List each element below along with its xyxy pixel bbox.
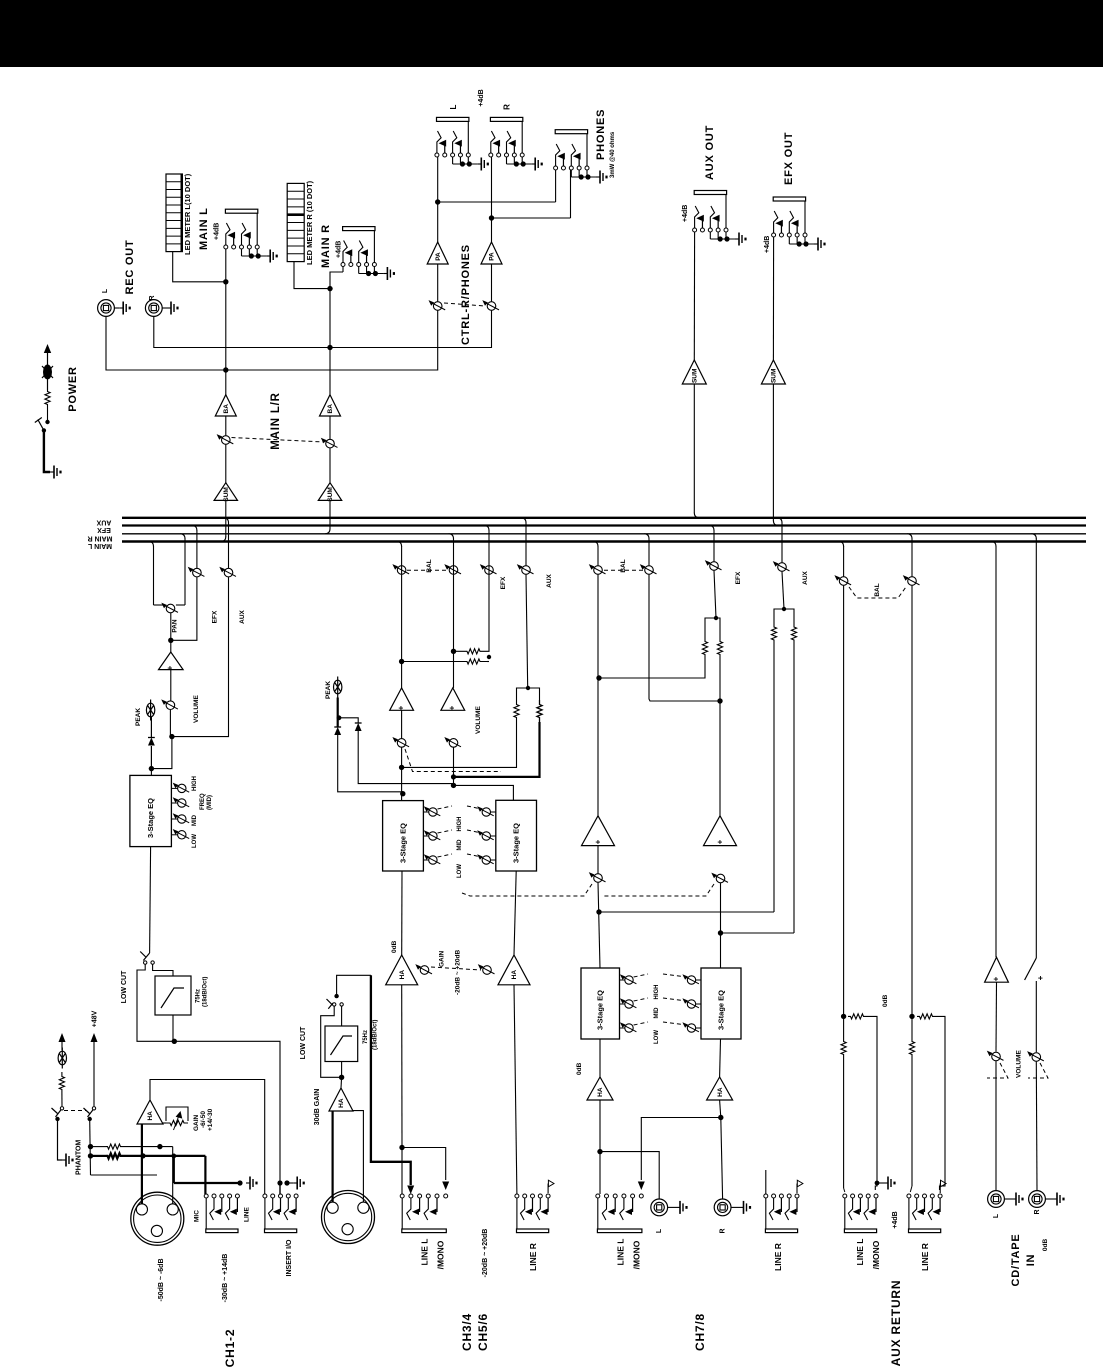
wire volume L to EQ ch78 [598, 883, 600, 968]
svg-text:BAL: BAL [426, 559, 433, 572]
wire BAL R down auxret [911, 586, 913, 1040]
wire aux sum to AUX pot ch34 [526, 575, 528, 688]
svg-text:VOLUME: VOLUME [1016, 1050, 1023, 1078]
amp SUM EFX OUT [761, 360, 785, 384]
svg-text:+: + [1036, 975, 1045, 980]
svg-text:-20dB ~ +20dB: -20dB ~ +20dB [455, 950, 462, 995]
svg-text:+4dB: +4dB [682, 205, 689, 222]
svg-text:BAL: BAL [620, 559, 627, 572]
POWER resistor R1 [45, 390, 50, 406]
wire volume L to RCA cdtape [995, 1061, 997, 1191]
amp + L CH3/4 [390, 688, 414, 710]
low cut bypass switch CH1-2 [143, 953, 149, 961]
wire EFX sum to pot ch78 [714, 571, 716, 618]
svg-text:30dB GAIN: 30dB GAIN [314, 1089, 321, 1126]
svg-text:GAIN: GAIN [439, 950, 446, 967]
wire MAIN L tap to CTRL pot L [226, 311, 438, 370]
pot AUX CH3/4 [522, 566, 531, 575]
svg-text:/MONO: /MONO [436, 1240, 446, 1269]
wire meter R to MAIN R line [294, 262, 330, 289]
svg-text:L: L [102, 288, 109, 293]
aux sum resistor R ch34 [537, 700, 542, 722]
svg-text:LINE R: LINE R [528, 1243, 538, 1271]
amp SUM MAIN L [214, 483, 237, 501]
wire volume to EQ CH1-2 [169, 710, 171, 737]
wire volume R to EQ ch78 [720, 883, 722, 968]
RCA jack R CH7/8 [714, 1199, 731, 1216]
wire LINE jack feed CH1 [204, 1156, 206, 1194]
pot BAL R CH3/4 [449, 566, 458, 575]
gang dashed VOLUME CH7/8 [462, 884, 592, 896]
phantom LED chain arrow [61, 1040, 63, 1050]
gang dashed BAL CH7/8 [604, 569, 644, 571]
EFX sum resistors CH7/8 [599, 656, 705, 678]
svg-text:HA: HA [717, 1087, 724, 1097]
gang dashed CTRL-R [444, 303, 485, 306]
peak diode R ch34 [339, 718, 358, 723]
amp HA L CH7/8 [587, 1077, 613, 1100]
normalling wire L to R ch34 [402, 1148, 446, 1181]
svg-text:+4dB: +4dB [478, 89, 485, 106]
svg-text:BA: BA [223, 404, 230, 414]
bus EFX [122, 524, 1086, 526]
wire volume R to RCA cdtape [1035, 1062, 1038, 1191]
diode peak CH1-2 [150, 746, 152, 769]
gang dashed VOLUME cdtape [987, 1063, 1008, 1078]
pot EQ MID CH1-2 [171, 818, 177, 820]
pot AUX CH1-2 [224, 568, 233, 577]
wire EFX OUT jack to SUM [772, 237, 774, 360]
wire MAIN R tap to CTRL pot R [330, 311, 492, 348]
pot BAL L CH3/4 [397, 566, 406, 575]
svg-text:MAIN L: MAIN L [198, 207, 210, 250]
pot gain L CH3/4 [420, 966, 429, 975]
wire CH1-2 pan L to bus MAIN L [153, 546, 155, 605]
wire XLR pin2 to HA CH1 [141, 1124, 143, 1204]
wire to RCA L ch78 [600, 1152, 659, 1199]
jack LINE R CH7/8 [764, 1194, 768, 1198]
POWER ground [50, 471, 54, 473]
svg-text:PEAK: PEAK [325, 681, 332, 699]
wire HA R to RCA R ch78 [720, 1100, 721, 1118]
svg-text:LINE: LINE [244, 1207, 251, 1222]
wire EFX pot to bus EFX CH1-2 [196, 530, 198, 568]
pot GAIN CH1-2 [162, 1122, 166, 1124]
svg-text:LINE R: LINE R [920, 1243, 930, 1271]
pot VOLUME R CH3/4 [449, 739, 458, 748]
wire CD L amp to volume [995, 982, 998, 1051]
wire SUM EFX to bus EFX [772, 384, 774, 521]
svg-text:R: R [720, 1228, 727, 1233]
svg-text:L: L [449, 104, 458, 109]
wire BAL R down to EFX tap ch34 [453, 575, 455, 688]
svg-text:/MONO: /MONO [871, 1240, 881, 1269]
XLR connector MIC CH1 [131, 1192, 184, 1245]
jack LINE L/MONO AUX RETURN [843, 1194, 847, 1198]
pot BAL L CH7/8 [594, 566, 603, 575]
svg-text:SUM: SUM [327, 487, 334, 501]
svg-text:LOW CUT: LOW CUT [121, 970, 128, 1003]
svg-text:-6/-50: -6/-50 [200, 1111, 207, 1128]
svg-text:SUM: SUM [771, 369, 778, 383]
EQ box R CH7/8 3-Stage EQ [701, 968, 741, 1039]
svg-text:PHONES: PHONES [595, 109, 607, 160]
wire EFX pot to bus ch78 [713, 530, 715, 561]
gang dashed gain CH3/4 [431, 967, 481, 970]
svg-text:HIGH: HIGH [192, 776, 198, 791]
jack CTRL ROOM OUT R [489, 153, 493, 157]
wire REC OUT L to MAIN L [106, 316, 226, 370]
svg-text:INSERT I/O: INSERT I/O [286, 1239, 293, 1277]
svg-text:BA: BA [327, 404, 334, 414]
svg-text:+: + [594, 839, 603, 844]
svg-text:+: + [716, 839, 725, 844]
svg-text:FREQ: FREQ [200, 793, 206, 810]
resistor inline L auxret [841, 1040, 846, 1056]
wire CD/TAPE R to bus MAIN R [1035, 538, 1037, 958]
svg-text:HA: HA [147, 1111, 154, 1121]
wire EFX tap CH1-2 [171, 577, 197, 640]
AUX sum resistors CH7/8 [771, 622, 776, 645]
wire SUM AUX to bus AUX [693, 384, 695, 513]
wire HA L to jacks ch78 [599, 1100, 601, 1152]
LED meter R (10 dot) [287, 183, 304, 261]
pot AUX CH7/8 [778, 563, 787, 572]
svg-text:AUX: AUX [802, 570, 809, 584]
wire BAL R down jog ch78 [649, 575, 720, 701]
pot MAIN R fader [326, 439, 335, 448]
peak diode L ch34 [337, 718, 339, 727]
amp BA MAIN L [215, 395, 236, 416]
svg-text:MAIN R: MAIN R [88, 535, 113, 542]
wire BAL R to bus auxret [911, 538, 913, 576]
pot VOLUME L CH7/8 [594, 874, 603, 883]
pot MAIN L fader [222, 436, 231, 445]
phantom feed wire [89, 1119, 92, 1175]
RCA jack CD/TAPE L [988, 1191, 1005, 1208]
wire CH1-2 pan R to bus MAIN R [184, 538, 186, 605]
aux tap L ch78 [599, 911, 774, 913]
amp SUM AUX OUT [682, 360, 706, 384]
jack MAIN L out [224, 245, 228, 249]
wire BAL L down auxret [843, 586, 845, 1040]
low cut filter box CH3/4 mic [325, 1026, 358, 1062]
EQ box R CH3/4 3-Stage EQ [496, 800, 537, 871]
wire HA R to jack ch34 [514, 985, 517, 1194]
svg-text:+: + [166, 665, 175, 670]
POWER ground wire [44, 430, 50, 472]
wire BAL L down ch78 [597, 575, 599, 816]
wire EQ R to HA ch78 [719, 1039, 722, 1077]
phantom LED [58, 1051, 66, 1065]
svg-text:SUM: SUM [692, 369, 699, 383]
wire BA to fader MAIN R [329, 416, 331, 439]
wire volume L to EQ ch34 [401, 748, 403, 801]
wire amp to volume L ch78 [597, 846, 599, 874]
wire volume R down ch34 [453, 748, 455, 786]
svg-text:EFX: EFX [212, 610, 219, 623]
wire BAL R to bus MAIN R ch34 [453, 538, 455, 574]
ground aux return L jack [875, 1182, 884, 1184]
jack EFX OUT [772, 233, 776, 237]
svg-text:LED METER L(10 DOT): LED METER L(10 DOT) [183, 173, 192, 255]
wire PA R to ctrl jack R and phones [491, 157, 493, 242]
wire AUX OUT jack to SUM [693, 232, 695, 360]
pot EQ MID pair CH7/8 [620, 1003, 625, 1005]
LED meter L (10 dot) [166, 174, 182, 252]
amp PA L [427, 242, 448, 264]
svg-text:3-Stage EQ: 3-Stage EQ [146, 798, 155, 838]
pot VOLUME CD/TAPE R [1032, 1053, 1041, 1062]
jack PHONES [554, 166, 558, 170]
bus AUX [122, 517, 1086, 519]
jack MAIN R out [341, 263, 345, 267]
svg-text:MIC: MIC [194, 1210, 201, 1222]
pot EQ HIGH CH1-2 [171, 787, 177, 789]
pot VOLUME CD/TAPE L [992, 1052, 1001, 1061]
svg-text:HA: HA [597, 1087, 604, 1097]
resistor branch R auxret [917, 1014, 935, 1019]
switch CD/TAPE R [1025, 958, 1037, 980]
pot BAL R CH7/8 [645, 566, 654, 575]
wire MAIN L jack to BA [225, 249, 227, 395]
svg-text:EFX: EFX [500, 576, 507, 589]
phantom switch pole B [92, 1107, 95, 1110]
jack INSERT I/O CH1-2 [263, 1194, 267, 1198]
svg-text:CH7/8: CH7/8 [693, 1313, 707, 1351]
pot EQ FREQ(MID) CH1-2 [171, 802, 177, 804]
svg-text:VOLUME: VOLUME [475, 706, 482, 734]
pot EQ HIGH pair CH3/4 [423, 811, 428, 813]
svg-text:3-Stage EQ: 3-Stage EQ [596, 990, 605, 1030]
svg-text:EFX OUT: EFX OUT [783, 132, 795, 185]
svg-text:-30dB ~ +14dB: -30dB ~ +14dB [222, 1254, 229, 1303]
svg-text:PAN: PAN [172, 619, 179, 633]
amp HA L CH3/4 [386, 955, 418, 985]
amp + CH1-2 [159, 652, 184, 670]
svg-text:+: + [992, 976, 1001, 981]
phantom feed resistor to XLR pin2 [91, 1146, 107, 1148]
amp HA R CH3/4 [498, 955, 530, 985]
arrow line R ch34 [547, 1184, 549, 1194]
pot EFX CH7/8 [710, 562, 719, 571]
POWER LED [43, 365, 52, 380]
wire XLR pin3 up CH1 [172, 1147, 174, 1204]
svg-text:PA: PA [489, 252, 496, 261]
XLR connector MIC CH3/4 [322, 1191, 375, 1244]
pot EQ LOW pair CH3/4 [423, 859, 428, 861]
svg-text:+: + [448, 705, 457, 710]
svg-text:MAIN L: MAIN L [87, 542, 112, 549]
svg-text:LINE L: LINE L [616, 1239, 626, 1266]
wire EQ L to HA ch34 [401, 871, 403, 955]
svg-text:+4dB: +4dB [892, 1211, 899, 1228]
wire aux tap R thick ch34 [454, 722, 540, 777]
svg-text:0dB: 0dB [391, 940, 398, 953]
RCA jack L CH7/8 [651, 1199, 668, 1216]
svg-text:SUM: SUM [223, 487, 230, 501]
wire MAIN R jack to BA [342, 266, 344, 272]
jack LINE R CH3/4 [515, 1194, 519, 1198]
wire AUX pot to bus ch34 [525, 522, 527, 565]
low cut filter box CH1-2 [155, 976, 191, 1015]
svg-text:R: R [503, 104, 512, 110]
svg-text:PEAK: PEAK [135, 708, 142, 726]
amp + R CH7/8 [704, 816, 737, 846]
pot BAL L AUX RETURN [839, 577, 848, 586]
low cut bypass wire CH1-2 [137, 964, 174, 1041]
EQ box L CH3/4 3-Stage EQ [383, 801, 424, 871]
wire switch to lowcut box CH1-2 [153, 964, 173, 976]
wire EQ R to HA ch34 [514, 871, 516, 955]
phantom switch pole A [60, 1107, 63, 1110]
RCA jack CD/TAPE R [1029, 1191, 1046, 1208]
pot BAL R AUX RETURN [908, 577, 917, 586]
wire fader to SUM MAIN L [225, 445, 227, 483]
gang dashed BAL CH3/4 [407, 569, 448, 571]
svg-text:CH3/4: CH3/4 [460, 1313, 474, 1351]
wire CD/TAPE L to bus MAIN L [995, 546, 997, 957]
wire amp to volume CH1-2 [170, 670, 172, 701]
svg-text:0dB: 0dB [882, 994, 889, 1007]
amp HA R CH7/8 [707, 1077, 733, 1100]
jack LINE L/MONO CH7/8 [596, 1194, 600, 1198]
pot EFX CH3/4 [485, 566, 494, 575]
svg-text:0dB: 0dB [1042, 1239, 1049, 1252]
pot EQ HIGH pair CH7/8 [620, 979, 625, 981]
svg-text:MID: MID [654, 1007, 660, 1019]
wire CD R switch to volume [1035, 981, 1037, 1052]
svg-text:(18dB/Oct): (18dB/Oct) [373, 1020, 379, 1050]
svg-text:3-Stage EQ: 3-Stage EQ [512, 823, 521, 863]
svg-text:/MONO: /MONO [632, 1240, 642, 1269]
amp + CD/TAPE L [985, 957, 1009, 982]
svg-text:EFX: EFX [97, 526, 111, 533]
pot CTRL-R R [487, 302, 496, 311]
svg-text:LOW: LOW [457, 864, 463, 878]
wire insert send CH1-2 [174, 1041, 280, 1181]
PEAK LED CH3/4 [334, 680, 342, 694]
pot gain R CH3/4 [483, 966, 492, 975]
POWER switch S1 [45, 420, 49, 424]
pot EQ MID pair CH3/4 [423, 835, 428, 837]
svg-text:HIGH: HIGH [457, 817, 463, 832]
arrow aux return R jack [939, 1184, 941, 1194]
svg-text:75Hz: 75Hz [363, 1030, 369, 1044]
insert ground wire [287, 1182, 293, 1184]
svg-text:LINE L: LINE L [855, 1239, 865, 1266]
svg-text:LINE L: LINE L [420, 1239, 430, 1266]
phantom ground [62, 1159, 66, 1161]
pot EFX CH1-2 [193, 568, 202, 577]
svg-text:LOW CUT: LOW CUT [300, 1026, 307, 1059]
svg-text:L: L [656, 1228, 663, 1233]
wire meter L to MAIN L line [173, 252, 226, 282]
svg-text:LOW: LOW [192, 834, 198, 848]
svg-text:CH1-2: CH1-2 [223, 1329, 237, 1367]
pot VOLUME R CH7/8 [716, 874, 725, 883]
svg-text:REC OUT: REC OUT [124, 239, 136, 294]
svg-text:L: L [993, 1213, 1000, 1218]
svg-text:AUX OUT: AUX OUT [704, 125, 716, 180]
wire BAL L to bus ch78 [597, 546, 599, 565]
wire BAL L to bus MAIN L ch34 [401, 546, 403, 574]
wire lowcut box to insert line CH1-2 [172, 1015, 174, 1041]
resistor inline R auxret [909, 1040, 914, 1056]
wire EFX pot to bus ch34 [488, 530, 490, 565]
wire SUM R to bus MAIN R [329, 500, 331, 529]
svg-text:R: R [1034, 1209, 1041, 1214]
svg-text:75Hz: 75Hz [196, 989, 202, 1003]
wire EQ L to HA ch78 [599, 1039, 601, 1077]
EQ box CH1-2 3-Stage EQ [130, 775, 172, 846]
svg-text:GAIN: GAIN [193, 1114, 200, 1131]
pot CTRL-R L [433, 302, 442, 311]
jack MIC/LINE CH1-2 [204, 1194, 208, 1198]
phantom resistor [59, 1072, 64, 1094]
aux tap R ch78 [721, 932, 795, 934]
svg-text:IN: IN [1025, 1254, 1037, 1267]
gang dashed BAL auxret [849, 587, 906, 598]
page header black bar [0, 0, 1103, 67]
wire R main jog to EQ ch34 [454, 785, 514, 800]
svg-text:+14/-30: +14/-30 [207, 1108, 214, 1131]
svg-text:PA: PA [435, 252, 442, 261]
svg-text:HA: HA [399, 970, 406, 980]
svg-text:+4dB: +4dB [214, 223, 221, 240]
amp HA 30dB CH3/4 mic [329, 1088, 353, 1111]
svg-text:HA: HA [338, 1098, 345, 1108]
jack LINE R AUX RETURN [907, 1194, 911, 1198]
phantom feed resistor to XLR pin3 [91, 1155, 107, 1157]
phantom ground wire [58, 1119, 63, 1160]
wire AUX tap CH1-2 [172, 577, 229, 736]
phantom switch gang dashed [64, 1110, 86, 1112]
svg-text:MID: MID [457, 839, 463, 851]
svg-text:AUX: AUX [546, 573, 553, 587]
pot VOLUME L CH3/4 [397, 739, 406, 748]
wire EQ to lowcut switch CH1-2 [150, 847, 151, 953]
svg-text:PHANTOM: PHANTOM [76, 1140, 83, 1175]
svg-text:+48V: +48V [92, 1010, 99, 1027]
svg-text:EFX: EFX [735, 571, 742, 584]
phantom return wire [91, 1174, 158, 1176]
resistor branch L auxret [848, 1014, 866, 1019]
wire BA to fader MAIN L [225, 416, 227, 435]
jack LINE L/MONO CH3/4 [400, 1194, 404, 1198]
svg-text:BAL: BAL [874, 583, 881, 596]
wire amp to volume L ch34 [401, 710, 403, 738]
LED PEAK CH1-2 [146, 703, 154, 717]
svg-text:-50dB ~ -6dB: -50dB ~ -6dB [158, 1259, 165, 1302]
low cut bypass wire CH3/4 mic [321, 1006, 342, 1077]
wire XLR2 pin3 to HA [353, 1111, 364, 1202]
wire CTRL pot L to PA L [437, 264, 439, 301]
amp + R CH3/4 [441, 688, 465, 710]
normalling wire R ch78 [641, 1118, 721, 1181]
wire lowcut2 to switch [341, 1006, 343, 1026]
svg-text:+4dB: +4dB [764, 236, 771, 253]
svg-text:+: + [397, 705, 406, 710]
wire HA out to insert return CH1-2 [150, 1080, 265, 1195]
svg-text:CD/TAPE: CD/TAPE [1010, 1233, 1022, 1286]
ground MIC/LINE jack CH1 [246, 1182, 250, 1184]
gang dashed VOLUME CH3/4 [405, 749, 501, 772]
EFX mono sum resistors CH3/4 [402, 661, 460, 663]
wire BAL R to bus ch78 [648, 538, 650, 565]
svg-text:AUX: AUX [239, 609, 246, 623]
bus MAIN L [122, 540, 1086, 543]
